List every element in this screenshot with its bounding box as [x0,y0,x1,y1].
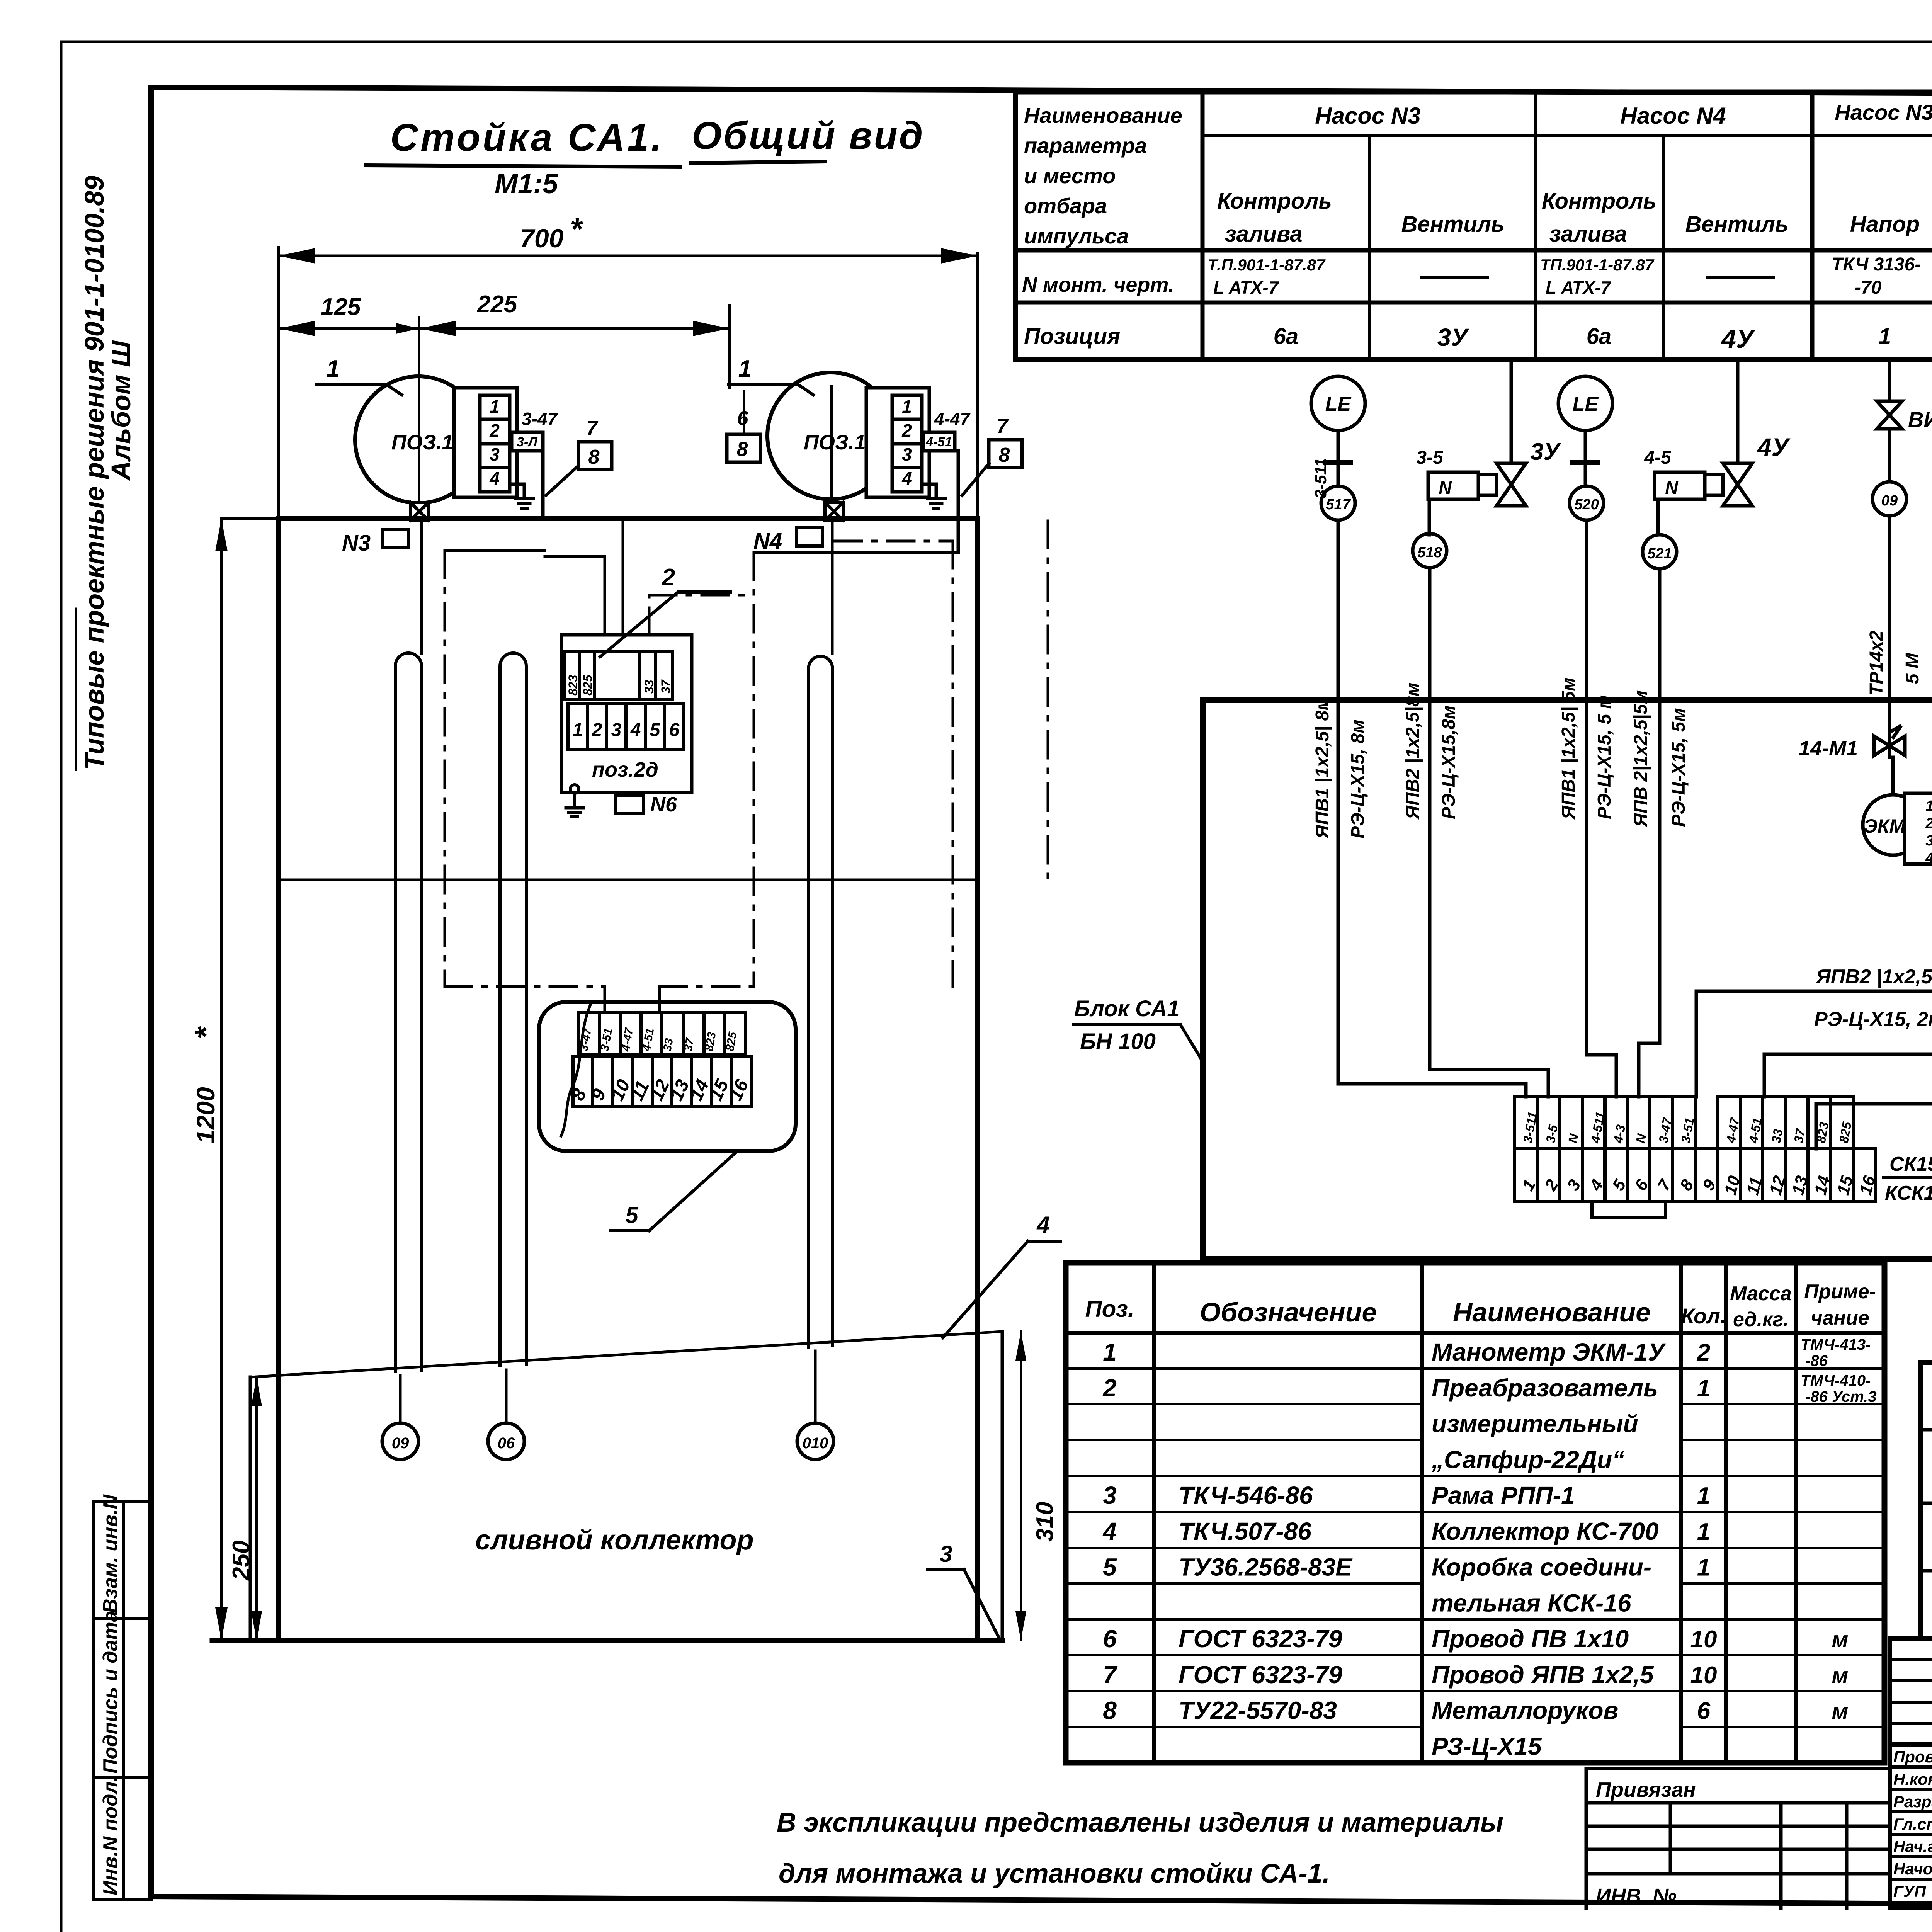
svg-text:4: 4 [901,468,912,488]
svg-text:м: м [1832,1663,1849,1688]
svg-text:Провер: Провер [1893,1748,1932,1766]
svg-text:7: 7 [997,415,1009,437]
svg-text:N6: N6 [650,793,677,816]
svg-text:Коробка соедини-: Коробка соедини- [1432,1553,1651,1581]
instrument line LE1 / 517 [1311,376,1526,1097]
misc verticals [622,521,624,635]
svg-text:ТР14х2: ТР14х2 [1866,631,1887,696]
svg-text:КСК16: КСК16 [1885,1182,1932,1204]
svg-text:Т.П.901-1-87.87: Т.П.901-1-87.87 [1207,256,1326,274]
svg-text:8: 8 [1103,1697,1117,1725]
svg-text:Нач.гр.: Нач.гр. [1893,1837,1932,1855]
svg-text:Инв.N подл.: Инв.N подл. [99,1776,122,1895]
svg-text:Разраб.: Разраб. [1893,1793,1932,1811]
svg-text:6: 6 [669,720,680,740]
svg-text:ВИ: ВИ [1908,407,1932,432]
svg-text:Стойка СА1.: Стойка СА1. [390,116,664,159]
label 5 leader [625,1202,639,1228]
svg-text:4: 4 [489,468,500,488]
svg-text:-70: -70 [1855,277,1882,298]
svg-text:ТКЧ-546-86: ТКЧ-546-86 [1179,1481,1313,1509]
svg-text:отбара: отбара [1024,194,1107,218]
svg-text:4-5: 4-5 [1644,447,1672,468]
dimension 700* [279,247,978,519]
svg-text:3: 3 [939,1541,952,1567]
svg-text:4: 4 [1036,1212,1049,1238]
svg-text:РЭ-Ц-Х15,8м: РЭ-Ц-Х15,8м [1439,706,1459,819]
svg-text:1: 1 [1925,798,1932,814]
wire 522 to strip col11 [1764,957,1932,1097]
svg-text:Масса: Масса [1730,1282,1792,1305]
svg-text:4: 4 [1102,1517,1117,1545]
instrument line LE2 / 520 [1558,376,1616,1097]
label 2 leader [662,564,675,591]
svg-text:Позиция: Позиция [1024,324,1120,349]
svg-text:Взам. инв.N: Взам. инв.N [99,1494,122,1613]
svg-text:поз.2д: поз.2д [592,758,658,781]
solenoid valve line 4У / 521 [1639,359,1752,1097]
dimension 310 [1015,1332,1026,1640]
valve symbol under pump 1 [410,502,429,520]
svg-text:06: 06 [498,1435,515,1452]
collector box [212,1332,1002,1640]
collector circle 010 [797,1423,833,1459]
note text [777,1807,1503,1888]
svg-text:N: N [1665,478,1678,498]
svg-text:6а: 6а [1274,324,1299,349]
svg-text:5 М: 5 М [1902,653,1923,684]
svg-text:8: 8 [588,446,600,468]
svg-text:3: 3 [1925,833,1932,849]
svg-text:ТМЧ-410-: ТМЧ-410- [1801,1372,1871,1389]
svg-text:Рама РПП-1: Рама РПП-1 [1432,1481,1575,1509]
svg-text:Обозначение: Обозначение [1200,1297,1377,1327]
svg-text:измерительный: измерительный [1432,1410,1638,1438]
dimension 250 [251,1377,262,1640]
svg-text:РЭ-Ц-Х15, 2м: РЭ-Ц-Х15, 2м [1814,1008,1932,1031]
svg-text:2: 2 [662,564,675,591]
svg-text:10: 10 [1690,1662,1717,1689]
label 3 leader [939,1541,952,1567]
svg-text:7: 7 [1103,1661,1118,1689]
svg-text:Блок СА1: Блок СА1 [1074,996,1180,1021]
svg-text:1: 1 [1697,1483,1710,1509]
svg-text:М1:5: М1:5 [495,168,558,199]
svg-text:Кол.: Кол. [1681,1304,1726,1328]
wire stubs to collector circles [400,1351,815,1423]
svg-text:8: 8 [999,444,1010,466]
manometer ЭКМ (3-47) [1863,757,1932,957]
svg-text:сливной коллектор: сливной коллектор [475,1525,753,1556]
svg-text:ТКЧ 3136-: ТКЧ 3136- [1832,254,1921,275]
svg-text:ЯПВ2 |1х2,5|: ЯПВ2 |1х2,5| [1815,966,1932,988]
svg-text:РЗ-Ц-Х15: РЗ-Ц-Х15 [1432,1732,1542,1760]
svg-text:тельная КСК-16: тельная КСК-16 [1432,1589,1631,1617]
pump circle assembly 1 (ПОЗ.1 left) [355,317,482,503]
svg-text:5: 5 [1103,1553,1117,1581]
title block [1890,1638,1932,1908]
svg-text:Гл.спец.: Гл.спец. [1893,1815,1932,1833]
svg-text:ГУП: ГУП [1893,1882,1926,1900]
svg-text:N монт. черт.: N монт. черт. [1022,273,1174,296]
svg-text:33: 33 [642,680,656,694]
svg-text:Провод ЯПВ 1х2,5: Провод ЯПВ 1х2,5 [1432,1661,1654,1689]
svg-text:залива: залива [1225,221,1303,247]
svg-text:РЭ-Ц-Х15, 5м: РЭ-Ц-Х15, 5м [1668,708,1689,827]
svg-text:м: м [1832,1699,1849,1724]
svg-text:518: 518 [1417,544,1442,561]
svg-text:Вентиль: Вентиль [1685,212,1789,237]
svg-text:В экспликации представлены и: В экспликации представлены изделия и мат… [777,1807,1503,1837]
svg-text:700: 700 [520,224,564,253]
N4 marker [753,529,782,554]
svg-text:225: 225 [477,291,518,318]
svg-text:БН 100: БН 100 [1080,1029,1156,1054]
svg-text:3: 3 [611,720,622,740]
svg-text:L АТХ-7: L АТХ-7 [1213,277,1279,298]
Блок СА1 БН100 label [1074,996,1180,1054]
svg-text:1: 1 [327,355,340,382]
svg-text:1: 1 [573,720,583,740]
collector circle 09 [382,1423,418,1459]
svg-text:1200: 1200 [191,1087,220,1144]
svg-text:10: 10 [1690,1626,1717,1653]
left margin album note [79,176,136,770]
label 4 leader [1036,1212,1049,1238]
pump circle assembly 2 (ПОЗ.1 right) [767,372,894,502]
svg-text:2: 2 [1102,1374,1117,1402]
svg-text:-86: -86 [1805,1352,1828,1369]
svg-text:6: 6 [1103,1625,1117,1653]
svg-text:1: 1 [490,396,500,417]
КСК-16 junction box [539,1002,796,1151]
svg-text:ЯПВ 2|1х2,5|5м: ЯПВ 2|1х2,5|5м [1631,690,1651,828]
svg-text:2: 2 [489,420,500,440]
valve symbol under pump 2 [825,502,843,520]
Привязан section [1586,1769,1890,1908]
svg-text:Манометр ЭКМ-1У: Манометр ЭКМ-1У [1432,1338,1667,1366]
svg-text:L АТХ-7: L АТХ-7 [1546,277,1612,298]
svg-text:4-47: 4-47 [934,409,971,429]
svg-text:Преабразователь: Преабразователь [1432,1374,1658,1402]
cabinet outline [221,519,978,1640]
svg-text:Привязан: Привязан [1596,1778,1696,1801]
svg-text:СК15: СК15 [1889,1153,1932,1175]
view title [390,114,924,199]
svg-text:Провод ПВ 1х10: Провод ПВ 1х10 [1432,1625,1629,1653]
svg-text:521: 521 [1647,546,1672,562]
dimensions 125 / 225 [279,305,730,388]
svg-text:м: м [1832,1627,1849,1652]
svg-text:чание: чание [1811,1307,1869,1329]
svg-text:„Сапфир-22Ди“: „Сапфир-22Ди“ [1431,1446,1624,1473]
svg-text:РЭ-Ц-Х15, 8м: РЭ-Ц-Х15, 8м [1348,719,1368,838]
svg-text:ЯПВ1 |1х2,5| 8м: ЯПВ1 |1х2,5| 8м [1312,697,1333,839]
svg-text:Коллектор КС-700: Коллектор КС-700 [1432,1517,1659,1545]
svg-text:517: 517 [1326,497,1351,513]
svg-text:ед.кг.: ед.кг. [1733,1308,1789,1331]
svg-text:3: 3 [1103,1481,1117,1509]
pipe loops in cabinet [395,520,832,1372]
svg-text:1: 1 [1697,1554,1710,1581]
svg-text:N: N [1439,478,1452,498]
svg-text:09: 09 [392,1435,409,1452]
svg-text:Металлоруков: Металлоруков [1432,1697,1618,1725]
svg-text:823: 823 [566,675,580,696]
svg-text:1: 1 [1697,1375,1710,1402]
svg-text:1: 1 [902,396,912,417]
svg-text:LE: LE [1573,393,1599,415]
svg-text:6а: 6а [1587,324,1612,349]
N3 marker [342,531,371,556]
svg-text:параметра: параметра [1024,133,1147,158]
shutoff valve 14-М1 at x=4890 [1874,726,1905,757]
svg-text:Альбом Ш: Альбом Ш [106,340,136,481]
svg-text:Насос N3: Насос N3 [1315,103,1420,129]
svg-text:1: 1 [1103,1338,1117,1366]
svg-text:N4: N4 [753,529,782,554]
svg-text:ИНВ. №: ИНВ. № [1596,1884,1677,1908]
svg-text:ТУ22-5570-83: ТУ22-5570-83 [1179,1697,1337,1725]
svg-text:ТП.901-1-87.87: ТП.901-1-87.87 [1540,256,1655,274]
svg-text:2: 2 [901,420,912,440]
svg-text:импульса: импульса [1024,224,1129,248]
svg-text:2: 2 [1925,815,1932,832]
svg-text:Начота: Начота [1893,1860,1932,1878]
left margin stamp boxes [93,1501,151,1899]
svg-text:37: 37 [659,679,673,694]
svg-text:6: 6 [1697,1698,1711,1725]
svg-text:4У: 4У [1757,433,1791,461]
svg-text:3-Л: 3-Л [517,435,537,449]
svg-text:и место: и место [1024,163,1116,188]
svg-text:33: 33 [661,1037,675,1052]
БЛОК СА1 box [1203,700,1932,1259]
svg-text:Контроль: Контроль [1542,189,1656,214]
ground of ПОЗ.2д [566,785,583,817]
wire 519 to strip col8 [1696,957,1932,1097]
svg-text:*: * [189,1026,223,1039]
parts list table [1066,1263,1884,1763]
svg-text:Н.конта: Н.конта [1893,1770,1932,1788]
svg-text:010: 010 [803,1435,828,1452]
svg-text:*: * [570,212,583,246]
svg-text:33: 33 [1769,1128,1785,1145]
ПОЗ.2д converter box [561,635,692,793]
jumper bracket under cells 4-6 [1592,1201,1665,1218]
terminal strip СК15/КСК16 [1515,1097,1876,1201]
svg-text:125: 125 [321,294,361,320]
svg-text:Типовые проектные решения 90: Типовые проектные решения 901-1-0100.89 [79,176,109,770]
svg-text:2: 2 [592,720,602,740]
svg-text:3: 3 [490,444,500,464]
svg-text:1: 1 [738,355,752,382]
svg-text:520: 520 [1574,497,1599,513]
svg-text:Вентиль: Вентиль [1401,212,1505,237]
svg-text:Напор: Напор [1850,212,1920,237]
svg-text:5: 5 [650,720,661,740]
svg-text:ЯПВ2 |1х2,5|8м: ЯПВ2 |1х2,5|8м [1403,683,1423,820]
svg-text:Подпись и дата: Подпись и дата [99,1611,122,1774]
svg-text:7: 7 [587,417,599,439]
svg-text:N3: N3 [342,531,371,556]
svg-text:ТМЧ-413-: ТМЧ-413- [1801,1336,1871,1353]
svg-text:для монтажа и установки ст: для монтажа и установки стойки СА-1. [779,1858,1330,1888]
svg-text:3-47: 3-47 [522,409,558,429]
N6 marker [616,795,644,814]
svg-text:09: 09 [1881,493,1898,509]
svg-text:ГОСТ 6323-79: ГОСТ 6323-79 [1179,1661,1342,1689]
svg-text:8: 8 [737,438,748,461]
svg-text:3-5: 3-5 [1416,447,1444,468]
svg-text:5: 5 [625,1202,639,1228]
svg-text:1: 1 [1697,1519,1710,1545]
svg-text:3У: 3У [1437,323,1470,351]
svg-text:3: 3 [902,444,912,464]
СК15 / КСК16 label [1885,1153,1932,1204]
svg-text:Насос N4: Насос N4 [1620,103,1726,129]
electrical dash-dot routes in cabinet [445,521,1048,1013]
svg-text:Приме-: Приме- [1804,1281,1876,1303]
svg-text:4: 4 [630,720,641,740]
dimension 1200* [215,519,228,1640]
svg-text:250: 250 [228,1541,255,1581]
svg-text:ПОЗ.1: ПОЗ.1 [804,431,866,454]
svg-text:Наименование: Наименование [1024,103,1182,128]
svg-text:310: 310 [1032,1502,1058,1542]
svg-text:-86 Уст.3: -86 Уст.3 [1805,1388,1877,1405]
svg-text:Поз.: Поз. [1085,1296,1134,1322]
svg-text:3У: 3У [1530,439,1561,465]
svg-text:Наименование: Наименование [1453,1297,1651,1327]
svg-text:4У: 4У [1721,324,1756,354]
svg-text:Общий вид: Общий вид [692,114,924,157]
collector circle 06 [488,1423,524,1459]
svg-text:залива: залива [1549,221,1627,247]
svg-text:ЭКМ: ЭКМ [1864,815,1906,837]
svg-text:Насос N3: Насос N3 [1835,100,1932,124]
torn edge of КСК box [561,1005,590,1136]
svg-text:1: 1 [1879,324,1891,349]
parameters table (top right) [1015,92,1932,359]
svg-text:Контроль: Контроль [1217,189,1332,214]
svg-text:ГОСТ 6323-79: ГОСТ 6323-79 [1179,1625,1342,1653]
solenoid valve line 3У / 518 [1413,359,1548,1097]
svg-text:ТУ36.2568-83Е: ТУ36.2568-83Е [1179,1553,1353,1581]
pressure line 09 with valve ВИ [1872,359,1906,734]
svg-text:4-51: 4-51 [925,435,952,449]
svg-text:ПОЗ.1: ПОЗ.1 [391,431,454,454]
svg-text:14-М1: 14-М1 [1799,737,1858,760]
svg-text:LE: LE [1325,393,1352,415]
svg-text:РЭ-Ц-Х15, 5 м: РЭ-Ц-Х15, 5 м [1594,695,1615,819]
svg-text:2: 2 [1697,1339,1710,1366]
svg-text:825: 825 [581,674,595,696]
svg-text:4: 4 [1925,850,1932,866]
svg-text:3-511: 3-511 [1311,458,1330,498]
svg-text:ТКЧ.507-86: ТКЧ.507-86 [1179,1517,1311,1545]
